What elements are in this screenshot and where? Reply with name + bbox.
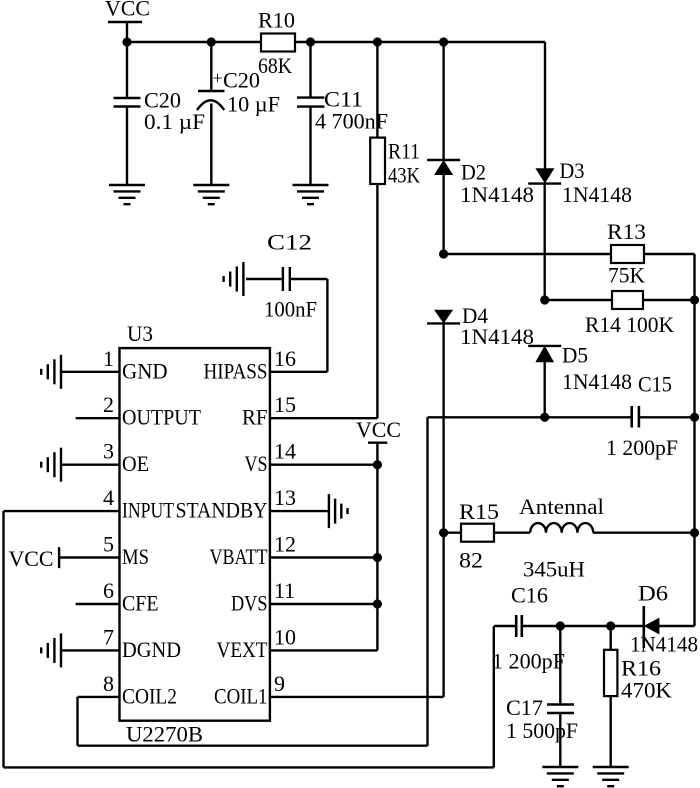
pin 13 STANDBY wire (270, 510, 329, 512)
pin 9 COIL1 wire (270, 696, 444, 698)
ground below C17 (542, 767, 578, 786)
wire right column (R13 down to D6) (693, 254, 695, 626)
resistor R11 43K (376, 42, 378, 138)
svg-text:10: 10 (274, 624, 296, 649)
junction dot right column C15 (690, 413, 699, 422)
ground at pin 7 (41, 633, 61, 667)
junction dot R16 (606, 621, 615, 630)
diode D4 1N4148 (435, 310, 452, 322)
svg-text:D5: D5 (562, 343, 588, 368)
svg-text:+: + (213, 68, 223, 88)
wire top rail right (R10 to D3 corner) (295, 41, 545, 43)
wire D4 column down to COIL1 (442, 323, 444, 697)
capacitor C15 1200pF (630, 406, 633, 428)
junction dot D2 branch (439, 37, 448, 46)
svg-text:16: 16 (274, 346, 296, 371)
capacitor C17 1500pF (559, 626, 561, 705)
pin 6 CFE stub (76, 603, 120, 605)
svg-text:1N4148: 1N4148 (460, 324, 534, 349)
wire D3 to R14 node (544, 184, 546, 300)
junction dot D2-D4 at R13 row (439, 249, 448, 258)
svg-text:13: 13 (274, 485, 296, 510)
svg-text:C20: C20 (223, 68, 260, 93)
ground left of C12 (224, 262, 244, 296)
resistor R16 470K (610, 626, 612, 650)
wire C15 line right segment (640, 416, 695, 418)
svg-text:DVS: DVS (231, 591, 268, 616)
node VCC top terminal (108, 21, 142, 23)
pin 10 VEXT wire (270, 649, 378, 651)
svg-text:14: 14 (274, 439, 296, 464)
wire C12 to HIPASS pin16 (326, 279, 328, 372)
svg-text:4: 4 (103, 485, 114, 510)
svg-text:6: 6 (103, 578, 114, 603)
wire COIL2 riser to C15 line (426, 417, 428, 745)
ground at pin 13 (329, 494, 348, 528)
pin 7 DGND wire (61, 649, 120, 651)
wire top rail left (VCC to R10) (127, 41, 261, 43)
svg-text:C16: C16 (511, 583, 548, 608)
svg-text:1N4148: 1N4148 (562, 369, 632, 394)
svg-text:D6: D6 (638, 581, 668, 606)
svg-text:82: 82 (459, 548, 483, 573)
wire bottom INPUT line (4, 766, 494, 768)
svg-text:MS: MS (122, 544, 149, 569)
resistor R14 100K (612, 291, 643, 309)
svg-text:R11: R11 (388, 139, 420, 164)
wire C17 node to C16 (523, 625, 560, 627)
svg-text:COIL2: COIL2 (122, 683, 177, 708)
junction dot VBATT (373, 553, 382, 562)
svg-text:3: 3 (103, 439, 114, 464)
svg-text:345uH: 345uH (523, 557, 585, 582)
svg-text:C17: C17 (506, 695, 543, 720)
junction dot right column R14 (690, 295, 699, 304)
wire D2 to R13 node (442, 175, 444, 255)
svg-text:U3: U3 (127, 321, 153, 346)
junction dot VCC entry (122, 37, 131, 46)
wire R16 node to C17 node (560, 625, 610, 627)
diode D2 1N4148 (442, 42, 444, 160)
junction dot R11 branch (373, 37, 382, 46)
svg-text:DGND: DGND (122, 637, 181, 662)
junction dot D5 anode on C15 line (540, 413, 549, 422)
capacitor C20 0.1uF (126, 42, 128, 98)
svg-text:75K: 75K (608, 263, 645, 288)
wire right column corner to D6 (659, 625, 695, 627)
svg-text:10 µF: 10 µF (227, 92, 280, 117)
svg-text:9: 9 (274, 671, 285, 696)
pin 11 DVS wire (270, 603, 378, 605)
svg-text:Antennal: Antennal (519, 494, 604, 519)
svg-text:1N4148: 1N4148 (460, 182, 534, 207)
junction dot C20 electrolytic (207, 37, 216, 46)
svg-text:D3: D3 (560, 158, 585, 183)
diode D3 1N4148 (544, 42, 546, 169)
svg-text:GND: GND (122, 358, 168, 383)
wire R11 to RF corner (376, 184, 378, 418)
ground at pin 3 (41, 448, 61, 482)
wire R13 row left (444, 253, 611, 255)
svg-text:1: 1 (103, 346, 114, 371)
ground below C20 (109, 185, 145, 204)
svg-text:STANDBY: STANDBY (176, 498, 268, 523)
op-amp U3 IC U2270B body (120, 348, 270, 721)
svg-text:OE: OE (122, 451, 149, 476)
svg-text:R15: R15 (459, 499, 499, 524)
svg-text:VBATT: VBATT (210, 544, 268, 569)
svg-text:VEXT: VEXT (217, 637, 268, 662)
diode D6 1N4148 (642, 606, 645, 648)
svg-text:HIPASS: HIPASS (204, 358, 268, 383)
ground below C20 electrolytic (193, 185, 229, 204)
svg-text:RF: RF (242, 405, 268, 430)
svg-text:C12: C12 (267, 230, 312, 255)
pin 8 COIL2 wire loop (78, 696, 120, 698)
wire D5 to C15 line (544, 362, 546, 418)
wire R15 to antenna coil (494, 532, 530, 534)
pin 1 GND wire (61, 371, 120, 373)
svg-text:1 500pF: 1 500pF (506, 718, 578, 743)
svg-text:VCC: VCC (356, 417, 401, 442)
capacitor C11 4700nF (309, 42, 311, 98)
node VCC at pin 5 MS (58, 547, 60, 568)
ground below R16 (593, 767, 629, 786)
inductor antenna coil 345uH (530, 523, 593, 533)
wire R14 row right (643, 299, 695, 301)
pin 14 VS wire (270, 464, 378, 466)
junction dot R15 tap (439, 528, 448, 537)
svg-text:43K: 43K (388, 163, 420, 188)
ground below C11 (293, 185, 329, 204)
svg-text:12: 12 (274, 532, 296, 557)
junction dot DVS (373, 599, 382, 608)
diode D5 1N4148 (528, 345, 561, 347)
resistor R15 82 (461, 524, 494, 542)
svg-text:8: 8 (103, 671, 114, 696)
junction dot C11 branch (306, 37, 315, 46)
svg-text:U2270B: U2270B (126, 722, 203, 747)
svg-text:R10: R10 (258, 8, 295, 33)
wire antenna to right column (593, 532, 694, 534)
pin 3 OE wire (61, 464, 120, 466)
svg-text:D2: D2 (461, 160, 486, 185)
wire to R15 (444, 532, 461, 534)
svg-text:11: 11 (274, 578, 295, 603)
wire C16 riser down to INPUT bottom line (493, 626, 495, 767)
svg-text:7: 7 (103, 624, 114, 649)
junction dot VS (373, 460, 382, 469)
svg-text:2: 2 (103, 392, 114, 417)
pin 12 VBATT wire (270, 556, 378, 558)
wire R14 row left (545, 299, 612, 301)
wire D6 to R16 node (611, 625, 644, 627)
svg-text:100nF: 100nF (264, 297, 317, 322)
svg-text:1N4148: 1N4148 (630, 632, 698, 657)
svg-text:68K: 68K (258, 53, 292, 78)
svg-text:C15: C15 (638, 372, 672, 397)
pin 4 INPUT wire to left edge (4, 510, 120, 512)
svg-text:CFE: CFE (122, 591, 159, 616)
capacitor C20 electrolytic 10uF (210, 42, 212, 91)
svg-text:5: 5 (103, 532, 114, 557)
pin 2 OUTPUT stub (76, 417, 120, 419)
capacitor C16 1200pF (515, 615, 518, 637)
svg-text:VS: VS (245, 451, 268, 476)
svg-text:1 200pF: 1 200pF (606, 435, 678, 460)
svg-text:R13: R13 (607, 219, 646, 244)
resistor R13 75K (611, 245, 644, 263)
wire C15 line left segment (428, 416, 631, 418)
svg-text:INPUT: INPUT (122, 498, 174, 523)
wire C16 left to corner (494, 625, 515, 627)
pin 15 RF wire (270, 417, 378, 419)
wire R13 row right (644, 253, 695, 255)
svg-text:OUTPUT: OUTPUT (122, 405, 202, 430)
svg-text:COIL1: COIL1 (214, 683, 268, 708)
junction dot D3-D5 at R14 row (540, 295, 549, 304)
wire left edge column down (2, 511, 4, 767)
svg-text:R14 100K: R14 100K (585, 312, 674, 337)
junction dot right column antenna (690, 528, 699, 537)
resistor R10 (261, 34, 295, 52)
svg-text:470K: 470K (621, 678, 672, 703)
svg-text:1 200pF: 1 200pF (492, 649, 565, 674)
svg-text:0.1 µF: 0.1 µF (144, 109, 205, 134)
ground at pin 1 (41, 355, 61, 389)
svg-text:1N4148: 1N4148 (562, 182, 632, 207)
junction dot C17 (556, 621, 565, 630)
svg-text:VCC: VCC (9, 546, 54, 571)
svg-text:15: 15 (274, 392, 296, 417)
svg-text:VCC: VCC (105, 0, 150, 21)
